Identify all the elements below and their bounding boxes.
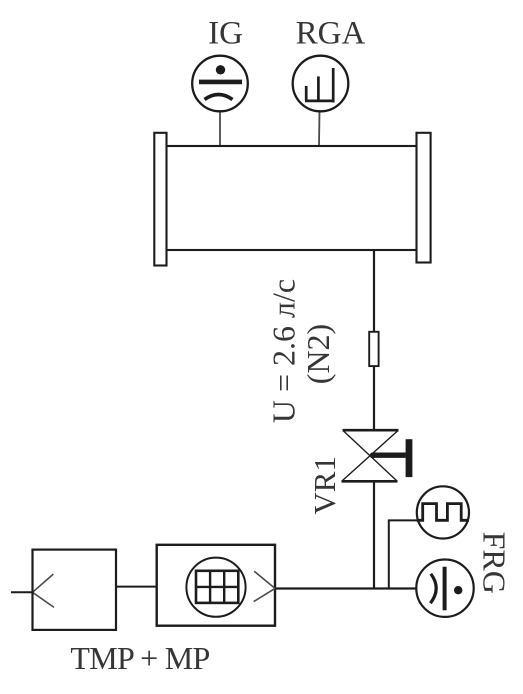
right flange xyxy=(417,133,431,263)
svg-text:RGA: RGA xyxy=(296,15,366,51)
svg-text:TMP + MP: TMP + MP xyxy=(70,640,209,676)
wire chamber to valve xyxy=(373,250,375,430)
wire main bottom pipe xyxy=(275,587,417,589)
FRG gauge xyxy=(416,560,473,617)
wire RGA stem xyxy=(318,111,321,146)
diaphragm gauge (square wave) xyxy=(417,486,469,538)
wire valve to junction xyxy=(373,481,375,589)
conductance capillary element xyxy=(369,332,378,366)
ionization gauge IG xyxy=(192,56,248,112)
box TMP (turbo pump) xyxy=(157,545,275,626)
wire between pumps xyxy=(116,586,157,588)
turbo rotor circle xyxy=(186,558,245,617)
turbo rotor grid xyxy=(196,571,238,603)
vacuum chamber body xyxy=(166,146,416,250)
box MP (backing pump) xyxy=(33,550,117,630)
left flange xyxy=(154,133,166,266)
svg-text:IG: IG xyxy=(208,16,243,52)
wire exhaust stub xyxy=(11,591,33,593)
svg-text:(N2): (N2) xyxy=(300,324,336,384)
RGA gauge U2 xyxy=(293,56,349,112)
svg-text:FRG: FRG xyxy=(477,532,513,594)
svg-text:U = 2.6 л/с: U = 2.6 л/с xyxy=(266,279,302,423)
exhaust arrow xyxy=(33,574,55,607)
wire IG stem xyxy=(219,111,221,146)
wire branch to diaphragm gauge xyxy=(389,520,417,588)
svg-text:VR1: VR1 xyxy=(307,456,342,515)
turbo outlet arrow xyxy=(254,571,275,601)
valve VR1 xyxy=(342,430,413,481)
